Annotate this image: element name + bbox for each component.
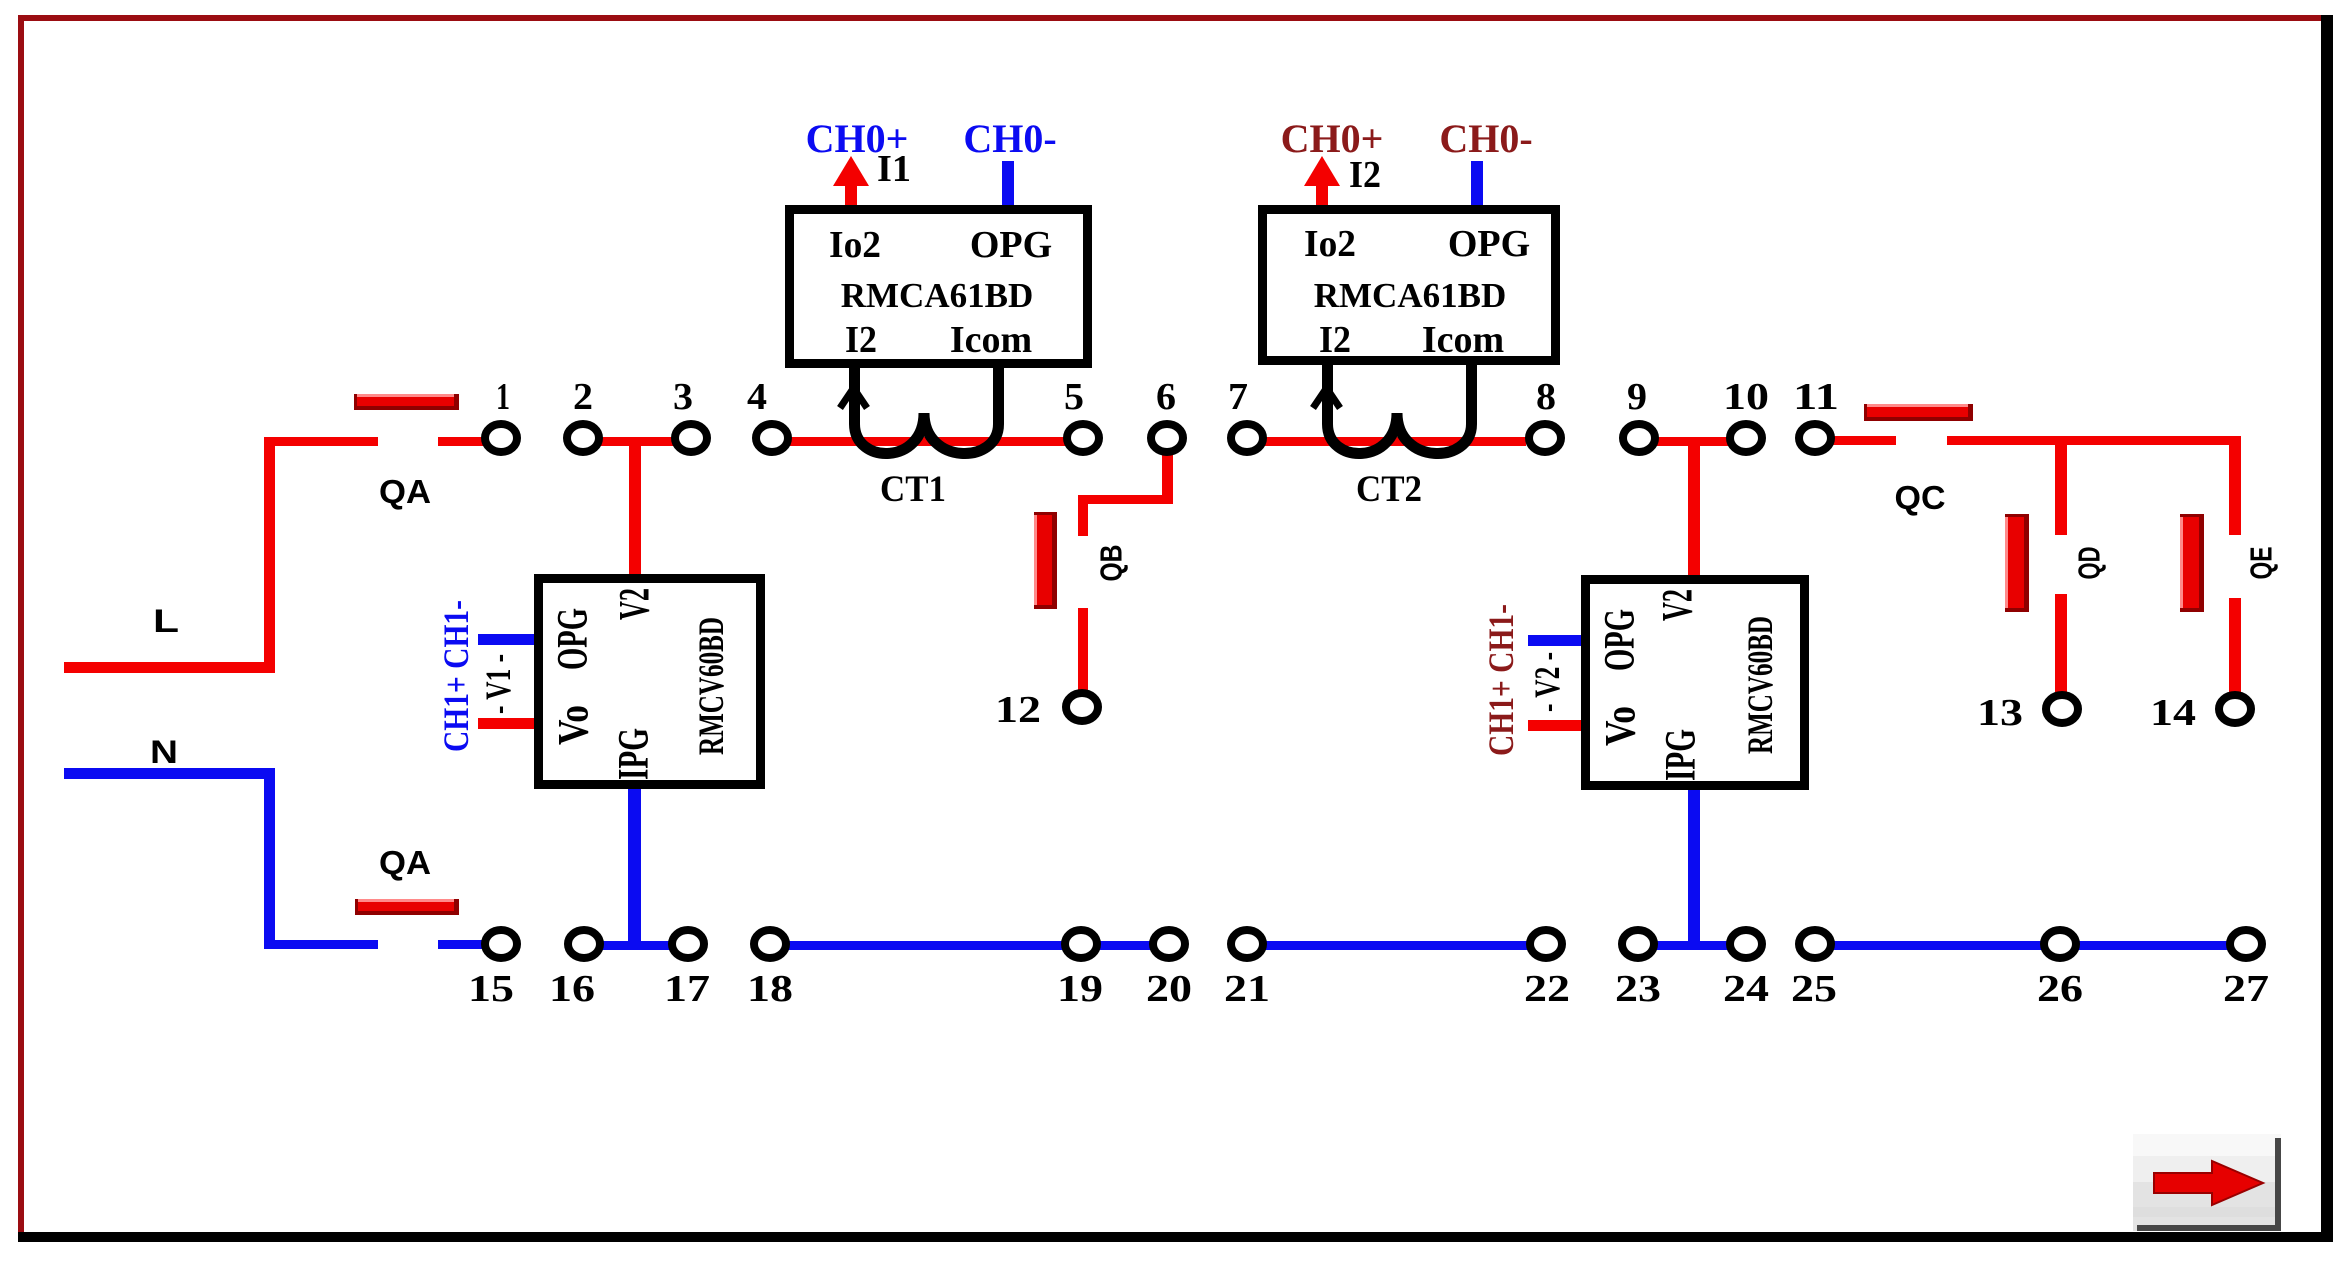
svg-text:Io2: Io2: [1304, 223, 1356, 265]
wire terminal 16 to 17: [601, 941, 671, 950]
wire terminal 4 to 5 through CT1: [789, 437, 1066, 446]
switch QA lever (top): [354, 394, 459, 410]
terminal 2: [567, 424, 599, 452]
terminal 12: [1066, 693, 1098, 721]
svg-text:1: 1: [496, 376, 510, 418]
svg-text:OPG: OPG: [550, 608, 597, 670]
terminal 19: [1065, 930, 1097, 958]
svg-text:5: 5: [1064, 376, 1084, 418]
wire IPG drop U3 to bus: [628, 787, 641, 944]
current transformer CT1 coil: [855, 364, 999, 453]
wire QA-bottom right contact to terminal 15: [438, 940, 484, 949]
wire terminal 7 to 8 through CT2: [1264, 437, 1526, 446]
svg-text:Io2: Io2: [829, 224, 881, 266]
svg-text:10: 10: [1723, 376, 1769, 418]
svg-text:13: 13: [1977, 692, 2023, 734]
terminal 25: [1799, 930, 1831, 958]
svg-text:20: 20: [1146, 968, 1192, 1010]
terminal 23: [1622, 930, 1654, 958]
wire QC right run: [1947, 436, 2241, 445]
wire CH1- stub to U3 OPG: [478, 634, 538, 645]
current module U2 RMCA61BD box: [1263, 210, 1556, 361]
svg-text:I1: I1: [877, 148, 911, 190]
svg-text:11: 11: [1793, 376, 1839, 418]
svg-text:Icom: Icom: [950, 319, 1032, 361]
terminal 11: [1799, 424, 1831, 452]
terminal 5: [1067, 424, 1099, 452]
next-page arrow button: [2133, 1134, 2281, 1231]
wire V2 drop to U3: [629, 444, 641, 577]
svg-text:Vo: Vo: [1598, 706, 1645, 746]
svg-text:15: 15: [468, 968, 514, 1010]
current transformer CT2 coil: [1328, 362, 1472, 453]
terminal 17: [672, 930, 704, 958]
switch QA lever (bottom): [355, 899, 459, 915]
voltage module U3 RMCV60BD box: [539, 579, 761, 785]
svg-text:2: 2: [573, 376, 593, 418]
svg-text:I2: I2: [845, 319, 877, 361]
terminal 24: [1730, 930, 1762, 958]
svg-text:4: 4: [747, 376, 767, 418]
svg-text:N: N: [150, 734, 178, 770]
svg-text:L: L: [153, 603, 179, 639]
svg-text:9: 9: [1627, 376, 1647, 418]
wire QA-top right contact to terminal 1: [438, 437, 484, 446]
wire terminal 9 to 10: [1656, 437, 1729, 446]
svg-text:RMCA61BD: RMCA61BD: [841, 276, 1033, 315]
wire CH1- stub to U4 OPG: [1528, 635, 1588, 646]
current module U1 RMCA61BD box: [790, 210, 1088, 364]
svg-text:19: 19: [1057, 968, 1103, 1010]
svg-text:22: 22: [1524, 968, 1570, 1010]
terminal 27: [2230, 930, 2262, 958]
terminal 7: [1231, 424, 1263, 452]
svg-text:V2: V2: [612, 588, 659, 620]
terminal 15: [485, 930, 517, 958]
wire terminal 23 to 24: [1655, 941, 1729, 950]
terminal 4: [756, 424, 788, 452]
svg-text:QD: QD: [2072, 547, 2107, 580]
svg-text:QB: QB: [1094, 545, 1129, 582]
svg-text:CH1+ CH1-: CH1+ CH1-: [436, 600, 476, 752]
svg-text:QC: QC: [1895, 479, 1946, 516]
terminal 9: [1623, 424, 1655, 452]
svg-text:RMCA61BD: RMCA61BD: [1314, 276, 1506, 315]
terminal 14: [2219, 695, 2251, 723]
svg-text:18: 18: [747, 968, 793, 1010]
svg-text:OPG: OPG: [970, 224, 1052, 266]
svg-text:I2: I2: [1319, 319, 1351, 361]
wire QE lower contact to terminal 14: [2229, 598, 2241, 692]
wire N feeder horizontal: [64, 768, 270, 779]
svg-text:12: 12: [995, 689, 1041, 731]
wire N feeder vertical: [264, 768, 275, 948]
svg-text:RMCV60BD: RMCV60BD: [1740, 616, 1780, 754]
svg-text:CT1: CT1: [880, 469, 946, 510]
svg-text:7: 7: [1228, 376, 1248, 418]
svg-text:24: 24: [1723, 968, 1769, 1010]
svg-text:CH0-: CH0-: [963, 116, 1056, 161]
terminal 26: [2044, 930, 2076, 958]
wire terminal 19 to 20: [1098, 941, 1152, 950]
terminal 21: [1231, 930, 1263, 958]
svg-text:3: 3: [673, 376, 693, 418]
terminal 18: [754, 930, 786, 958]
wire QC left contact from terminal 11: [1832, 436, 1896, 445]
wire terminal 18 to 19: [788, 941, 1064, 950]
wire terminal 2 to 3: [600, 437, 674, 446]
svg-text:RMCV60BD: RMCV60BD: [691, 617, 731, 755]
svg-text:CH1+ CH1-: CH1+ CH1-: [1481, 604, 1521, 756]
wire QB lower contact to terminal 12: [1078, 608, 1088, 692]
CT2 current direction arrowhead: [1313, 388, 1340, 408]
svg-text:Icom: Icom: [1422, 319, 1504, 361]
svg-text:14: 14: [2150, 692, 2196, 734]
wire IPG drop U4 to bus: [1688, 788, 1700, 944]
svg-text:QA: QA: [379, 844, 431, 881]
wire QE corner drop: [2229, 436, 2241, 535]
wire QD lower contact to terminal 13: [2055, 594, 2067, 692]
wire QA-bottom left contact: [264, 940, 378, 949]
switch QE lever: [2180, 514, 2204, 612]
switch QC lever: [1864, 404, 1973, 421]
terminal 13: [2046, 695, 2078, 723]
wire QD upper contact: [2055, 441, 2067, 535]
terminal 1: [485, 424, 517, 452]
terminal 20: [1153, 930, 1185, 958]
svg-text:25: 25: [1791, 968, 1837, 1010]
svg-text:21: 21: [1224, 968, 1270, 1010]
svg-text:- V2 -: - V2 -: [1527, 652, 1567, 712]
wire CH0- stub (U1 OPG): [1002, 161, 1014, 207]
svg-text:IPG: IPG: [1658, 729, 1705, 781]
svg-text:CH0-: CH0-: [1439, 116, 1532, 161]
svg-text:IPG: IPG: [611, 728, 658, 780]
wire CH0- stub (U2 OPG): [1471, 161, 1483, 207]
svg-text:27: 27: [2223, 968, 2269, 1010]
wire CH1+ stub to U3 Vo: [478, 718, 538, 729]
wire V2 drop to U4: [1688, 444, 1700, 575]
terminal 8: [1529, 424, 1561, 452]
svg-text:8: 8: [1536, 376, 1556, 418]
terminal 16: [568, 930, 600, 958]
wire L feeder horizontal: [64, 662, 270, 673]
svg-text:OPG: OPG: [1448, 223, 1530, 265]
terminal 6: [1151, 424, 1183, 452]
terminal 10: [1730, 424, 1762, 452]
wire terminal 25 to 26: [1832, 941, 2043, 950]
svg-text:OPG: OPG: [1597, 609, 1644, 671]
svg-text:CT2: CT2: [1356, 469, 1422, 510]
terminal 22: [1530, 930, 1562, 958]
wire terminal 26 to 27: [2078, 941, 2229, 950]
wire QB jog horizontal: [1078, 495, 1173, 504]
svg-text:Vo: Vo: [551, 705, 598, 745]
wire terminal 21 to 22: [1264, 941, 1529, 950]
wire CH1+ stub to U4 Vo: [1528, 720, 1588, 731]
voltage module U4 RMCV60BD box: [1586, 580, 1805, 786]
svg-text:QA: QA: [379, 473, 431, 510]
terminal 3: [675, 424, 707, 452]
svg-text:V2: V2: [1655, 589, 1702, 621]
arrow I2 output CH0+ (U2 Io2): [1304, 156, 1340, 207]
svg-text:16: 16: [549, 968, 595, 1010]
svg-text:17: 17: [664, 968, 710, 1010]
wire QB upper contact: [1078, 495, 1088, 536]
svg-text:I2: I2: [1349, 154, 1381, 196]
svg-text:23: 23: [1615, 968, 1661, 1010]
svg-text:26: 26: [2037, 968, 2083, 1010]
wire terminal 6 drop: [1162, 448, 1173, 504]
CT1 current direction arrowhead: [840, 388, 867, 408]
arrow I1 output CH0+ (U1 Io2): [833, 156, 869, 207]
svg-text:6: 6: [1156, 376, 1176, 418]
svg-text:- V1 -: - V1 -: [478, 654, 518, 714]
wire QA-top left contact: [264, 437, 378, 446]
switch QD lever: [2005, 514, 2029, 612]
wire L feeder vertical: [264, 437, 275, 673]
switch QB lever: [1034, 512, 1057, 609]
svg-text:QE: QE: [2244, 547, 2279, 580]
